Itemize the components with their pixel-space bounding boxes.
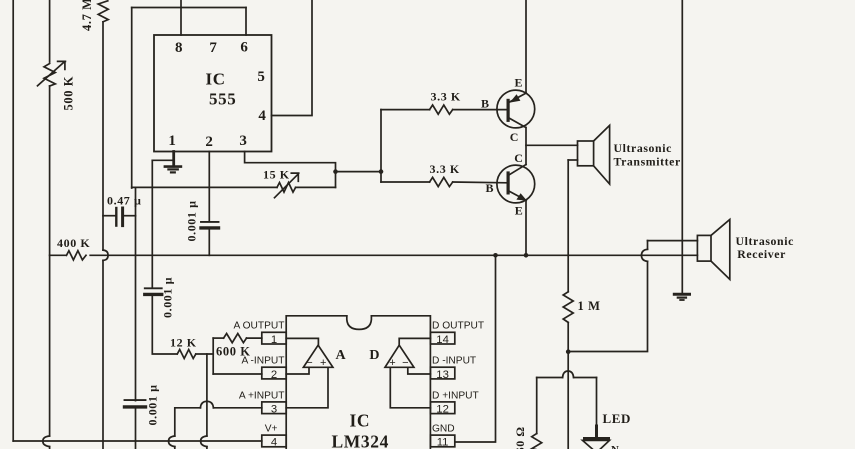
svg-text:1: 1 (271, 334, 277, 346)
svg-text:1: 1 (168, 133, 176, 149)
transistor Q1 collector line (508, 118, 526, 128)
svg-text:LM324: LM324 (332, 432, 389, 449)
node junction dot below 1M (566, 349, 571, 354)
node junction dot at 15K vertical (333, 169, 338, 174)
svg-text:IC: IC (350, 411, 371, 431)
svg-text:+: + (389, 357, 395, 369)
svg-text:D +INPUT: D +INPUT (432, 390, 479, 401)
wire hop: x=174.8 over bottom rail (169, 436, 175, 447)
svg-text:N: N (611, 444, 620, 449)
resistor 4.7M zigzag (cut at top, on wire C) (98, 1, 108, 22)
wire: transmitter top terminal from transistor rail (526, 144, 578, 146)
svg-text:12: 12 (436, 404, 449, 416)
wire: x=206.9 stub below rail (206, 447, 208, 449)
potentiometer 500K wiper arrow (38, 61, 66, 85)
wire: pin 14 to op-amp D output (399, 338, 430, 345)
svg-text:3: 3 (239, 133, 247, 149)
wire hop: pin 3 wire over x=206.9 vertical (200, 401, 213, 408)
svg-text:7: 7 (209, 40, 217, 56)
wire: pin 4 lead right then up to top edge (272, 0, 313, 116)
potentiometer 15K zigzag (277, 183, 296, 193)
LED triangle (cut at bottom) (583, 440, 610, 449)
svg-text:500 K: 500 K (62, 76, 76, 111)
wire: pin 6 vertical from top wire (245, 8, 247, 36)
wire: pin 2 vertical from IC555 to cap 0.001u (1) (208, 152, 210, 222)
svg-text:−: − (306, 357, 312, 369)
wire: pin 3 wire continues left then down (175, 408, 201, 436)
IC LM324 notch (347, 316, 372, 330)
transistor Q1 emitter arrowhead (points to base) (510, 94, 521, 102)
wire: top 3.3K right lead to Q1 base (453, 109, 507, 111)
wire: receiver top terminal (648, 240, 698, 242)
wire: transmitter bottom terminal (568, 159, 577, 161)
svg-text:−: − (402, 357, 408, 369)
svg-text:6: 6 (240, 40, 248, 56)
wire: node to pin 2 box (213, 373, 262, 375)
wire: wire C from 4.7M down to hop at main rail (102, 22, 104, 250)
speaker: ultrasonic receiver horn (711, 220, 730, 280)
IC LM324 body (286, 316, 430, 449)
wire: 600K node vertical x=213.2 (212, 338, 214, 374)
wire: Q1 collector to Q2 collector rail (525, 128, 527, 165)
wire: pin 3 down, right, and down to 15K junction (245, 152, 336, 188)
wire: pin 3 to op-amp A non-inverting input (286, 367, 328, 408)
pin box 3 (262, 402, 286, 414)
svg-text:IC: IC (206, 70, 226, 89)
svg-text:4.7 M: 4.7 M (80, 0, 94, 31)
capacitor 0.47u right lead (124, 215, 136, 217)
svg-text:400 K: 400 K (57, 236, 90, 250)
svg-text:GND: GND (432, 424, 455, 435)
resistor 1M zigzag (563, 292, 573, 323)
svg-text:LED: LED (603, 411, 632, 426)
wire: 560ohm/LED branch left horizontal (537, 377, 563, 379)
svg-text:2: 2 (205, 134, 213, 150)
wire: 560ohm vertical lead (536, 378, 538, 434)
op-amp A triangle (303, 345, 333, 367)
svg-text:D: D (369, 348, 380, 363)
pin box 14 (430, 332, 454, 344)
wire: wire B top segment (to 500K) (49, 0, 51, 62)
svg-text:E: E (515, 204, 524, 218)
svg-text:12 K: 12 K (170, 336, 197, 350)
wire: pin 11 GND right then up to main rail (456, 255, 496, 442)
resistor 400K lead from wire B (50, 254, 66, 256)
wire: junction to 3.3K node (336, 171, 382, 173)
pin box 11 (430, 435, 454, 447)
svg-text:0.47 µ: 0.47 µ (107, 194, 142, 208)
svg-text:Ultrasonic: Ultrasonic (736, 234, 794, 248)
svg-text:D OUTPUT: D OUTPUT (432, 321, 484, 332)
wire: vertical continues from dot to bottom edge (567, 352, 569, 449)
wire: main horizontal rail y=255 from 400K to receiver (90, 254, 697, 256)
svg-text:555: 555 (209, 90, 236, 109)
transistor Q2 emitter line (508, 191, 526, 201)
svg-text:C: C (510, 130, 519, 144)
wire: bottom 3.3K right lead to Q2 base (453, 181, 507, 184)
capacitor 0.001u (2) plates (145, 287, 162, 289)
wire hop: wire B over bottom rail (43, 436, 50, 447)
resistor 3.3K (bottom) zigzag (430, 177, 453, 186)
transistor Q1 base bar (507, 100, 510, 120)
wire: wire B stub below bottom rail (49, 447, 51, 449)
capacitor 0.47u left lead from wire C (103, 215, 115, 217)
wire: x=135.5 vertical from 15K feed wire down to cap 0.001u (3) (135, 188, 137, 401)
resistor 600K zigzag (224, 334, 247, 343)
svg-text:560 Ω: 560 Ω (513, 426, 527, 449)
wire: x=206.9 vertical from 12K wire down to bottom rail hop (206, 354, 208, 436)
wire: right vertical x=682.3 from top edge to ground (681, 0, 683, 293)
speaker: ultrasonic transmitter body (578, 141, 594, 166)
svg-text:0.001 µ: 0.001 µ (146, 384, 160, 425)
wire: x=647.5 lower part down to 1M junction wire (568, 261, 647, 351)
ground stub of pin 1 (172, 152, 175, 167)
resistor 400K zigzag (67, 251, 87, 260)
pin box 1 (262, 332, 286, 344)
svg-text:4: 4 (258, 108, 266, 124)
svg-text:A -INPUT: A -INPUT (241, 356, 284, 367)
wire hop: x=647.5 over main rail (641, 249, 647, 261)
LED cathode bar (585, 437, 609, 440)
wire: pin 2 to op-amp A inverting input (286, 367, 309, 374)
wire hop: wire C over main horizontal rail (103, 250, 108, 260)
wire: bottom rail from wire A to LM324 pin 4 (13, 440, 262, 442)
svg-text:1 M: 1 M (578, 299, 601, 313)
svg-text:5: 5 (257, 69, 265, 85)
wire: link from ground stub left to x=152.3 rail (152, 159, 173, 161)
wire: left supply rail (wire A, x=13) (12, 0, 14, 441)
svg-text:+: + (320, 357, 326, 369)
wire: receiver branch vertical x=647.5 upper part (647, 241, 649, 250)
wire: 600K left lead (213, 337, 223, 339)
svg-text:15 K: 15 K (263, 168, 290, 182)
svg-text:14: 14 (436, 334, 449, 346)
svg-text:B: B (481, 97, 490, 111)
wire: pin 3 lead with hop over x=206.9 (213, 407, 261, 409)
wire: 12K right lead to 600K node (196, 353, 213, 355)
speaker: ultrasonic receiver body (697, 235, 711, 261)
node junction dot Q2 emitter at main rail (524, 253, 529, 258)
svg-text:D -INPUT: D -INPUT (432, 356, 476, 367)
capacitor 0.001u (3) plates (125, 399, 146, 401)
LED thick lead (595, 426, 598, 438)
wire: pin 1 to op-amp A output (286, 338, 318, 345)
svg-text:0.001 µ: 0.001 µ (161, 277, 175, 318)
svg-text:0.001 µ: 0.001 µ (185, 200, 199, 241)
speaker: ultrasonic transmitter horn (594, 125, 610, 184)
wire: pin 12 to op-amp D non-inverting input (390, 367, 430, 408)
node junction dot at 3.3K vertical (379, 169, 384, 174)
wire: x=152.3 rail from ground link down to cap 0.001u (2) (151, 160, 153, 288)
potentiometer 500K zigzag (44, 64, 55, 87)
pin box 2 (262, 367, 286, 379)
wire: bottom 3.3K left lead (381, 181, 430, 183)
wire: top-left horizontal wire y=7.5 (132, 7, 246, 9)
transistor Q1 emitter line (508, 93, 526, 103)
svg-text:4: 4 (271, 437, 277, 449)
capacitor 0.47u plates (115, 208, 117, 226)
transistor Q2 base bar (507, 173, 510, 193)
wire hop: x=206.9 over bottom rail (201, 436, 207, 447)
ground symbol under pin 1 (165, 165, 181, 168)
wire: x=152.3 rail below cap down to 12K bend (152, 296, 177, 354)
wire: wire C lower segment to bottom edge (102, 260, 104, 449)
wire hop: branch over x=568.2 vertical (563, 371, 574, 378)
potentiometer 15K wiper arrow (275, 173, 299, 198)
svg-text:3.3 K: 3.3 K (431, 90, 461, 104)
svg-text:A: A (336, 348, 347, 363)
svg-text:3: 3 (271, 404, 277, 416)
resistor 12K zigzag (177, 350, 196, 359)
resistor 560 ohm zigzag (cut at bottom) (532, 434, 542, 449)
svg-text:A +INPUT: A +INPUT (239, 390, 285, 401)
node junction dot pin-11 riser at main rail (493, 253, 498, 258)
svg-text:Receiver: Receiver (737, 247, 786, 261)
wire: 15K feed horizontal from x=131.7 (132, 186, 277, 188)
svg-text:V+: V+ (265, 424, 278, 435)
wire: Q1 emitter up to top edge (525, 0, 527, 93)
wire: x=135.5 below cap to bottom edge (135, 409, 137, 449)
svg-text:8: 8 (175, 40, 183, 56)
capacitor 0.001u (1) plates (201, 221, 219, 223)
svg-text:E: E (515, 76, 524, 90)
transistor Q2 emitter arrowhead (points out) (516, 193, 527, 201)
svg-text:13: 13 (436, 369, 449, 381)
wire: pin 8 vertical from top edge (180, 0, 182, 35)
transistor Q2 (NPN, emitter down) circle (497, 165, 535, 203)
wire: wire B middle segment down to bottom rail hop (49, 86, 51, 436)
svg-text:3.3 K: 3.3 K (430, 162, 460, 176)
transistor Q1 (PNP, emitter up) circle (497, 90, 535, 128)
wire: top 3.3K left lead (381, 109, 430, 111)
svg-text:Ultrasonic: Ultrasonic (614, 141, 672, 155)
pin box 13 (430, 367, 454, 379)
svg-text:Transmitter: Transmitter (614, 154, 681, 168)
wire: LED vertical lead (596, 378, 598, 428)
svg-text:C: C (514, 151, 523, 165)
svg-text:11: 11 (437, 437, 449, 449)
svg-text:A OUTPUT: A OUTPUT (234, 321, 285, 332)
resistor 3.3K (top) zigzag (430, 105, 453, 114)
wire: IC555 left-side vertical x=131.7 (131, 8, 133, 189)
transistor Q2 collector line (508, 165, 526, 176)
pin box 4 (262, 435, 286, 447)
wire: 15K right lead to junction vertical (296, 186, 336, 188)
wire: 1M bottom to junction dot (567, 322, 569, 351)
svg-text:B: B (486, 181, 495, 195)
wire: 3.3K pair feed vertical x=381 (380, 110, 382, 182)
wire: Q2 emitter down to main rail (525, 200, 527, 255)
op-amp D triangle (385, 345, 414, 367)
pin box 12 (430, 402, 454, 414)
wire: x=568.2 vertical from transmitter down to 1M (567, 160, 569, 292)
wire: pin 13 to op-amp D inverting input (408, 367, 431, 374)
wire: cap (1) bottom to main rail (208, 230, 210, 256)
wire: 600K right lead to pin 1 box (247, 337, 262, 339)
wire: x=174.8 stub below rail (174, 447, 176, 449)
wire: branch right horizontal to LED (574, 377, 597, 379)
IC555 body (154, 35, 272, 152)
ground symbol below receiver (674, 293, 689, 296)
svg-text:2: 2 (271, 369, 277, 381)
